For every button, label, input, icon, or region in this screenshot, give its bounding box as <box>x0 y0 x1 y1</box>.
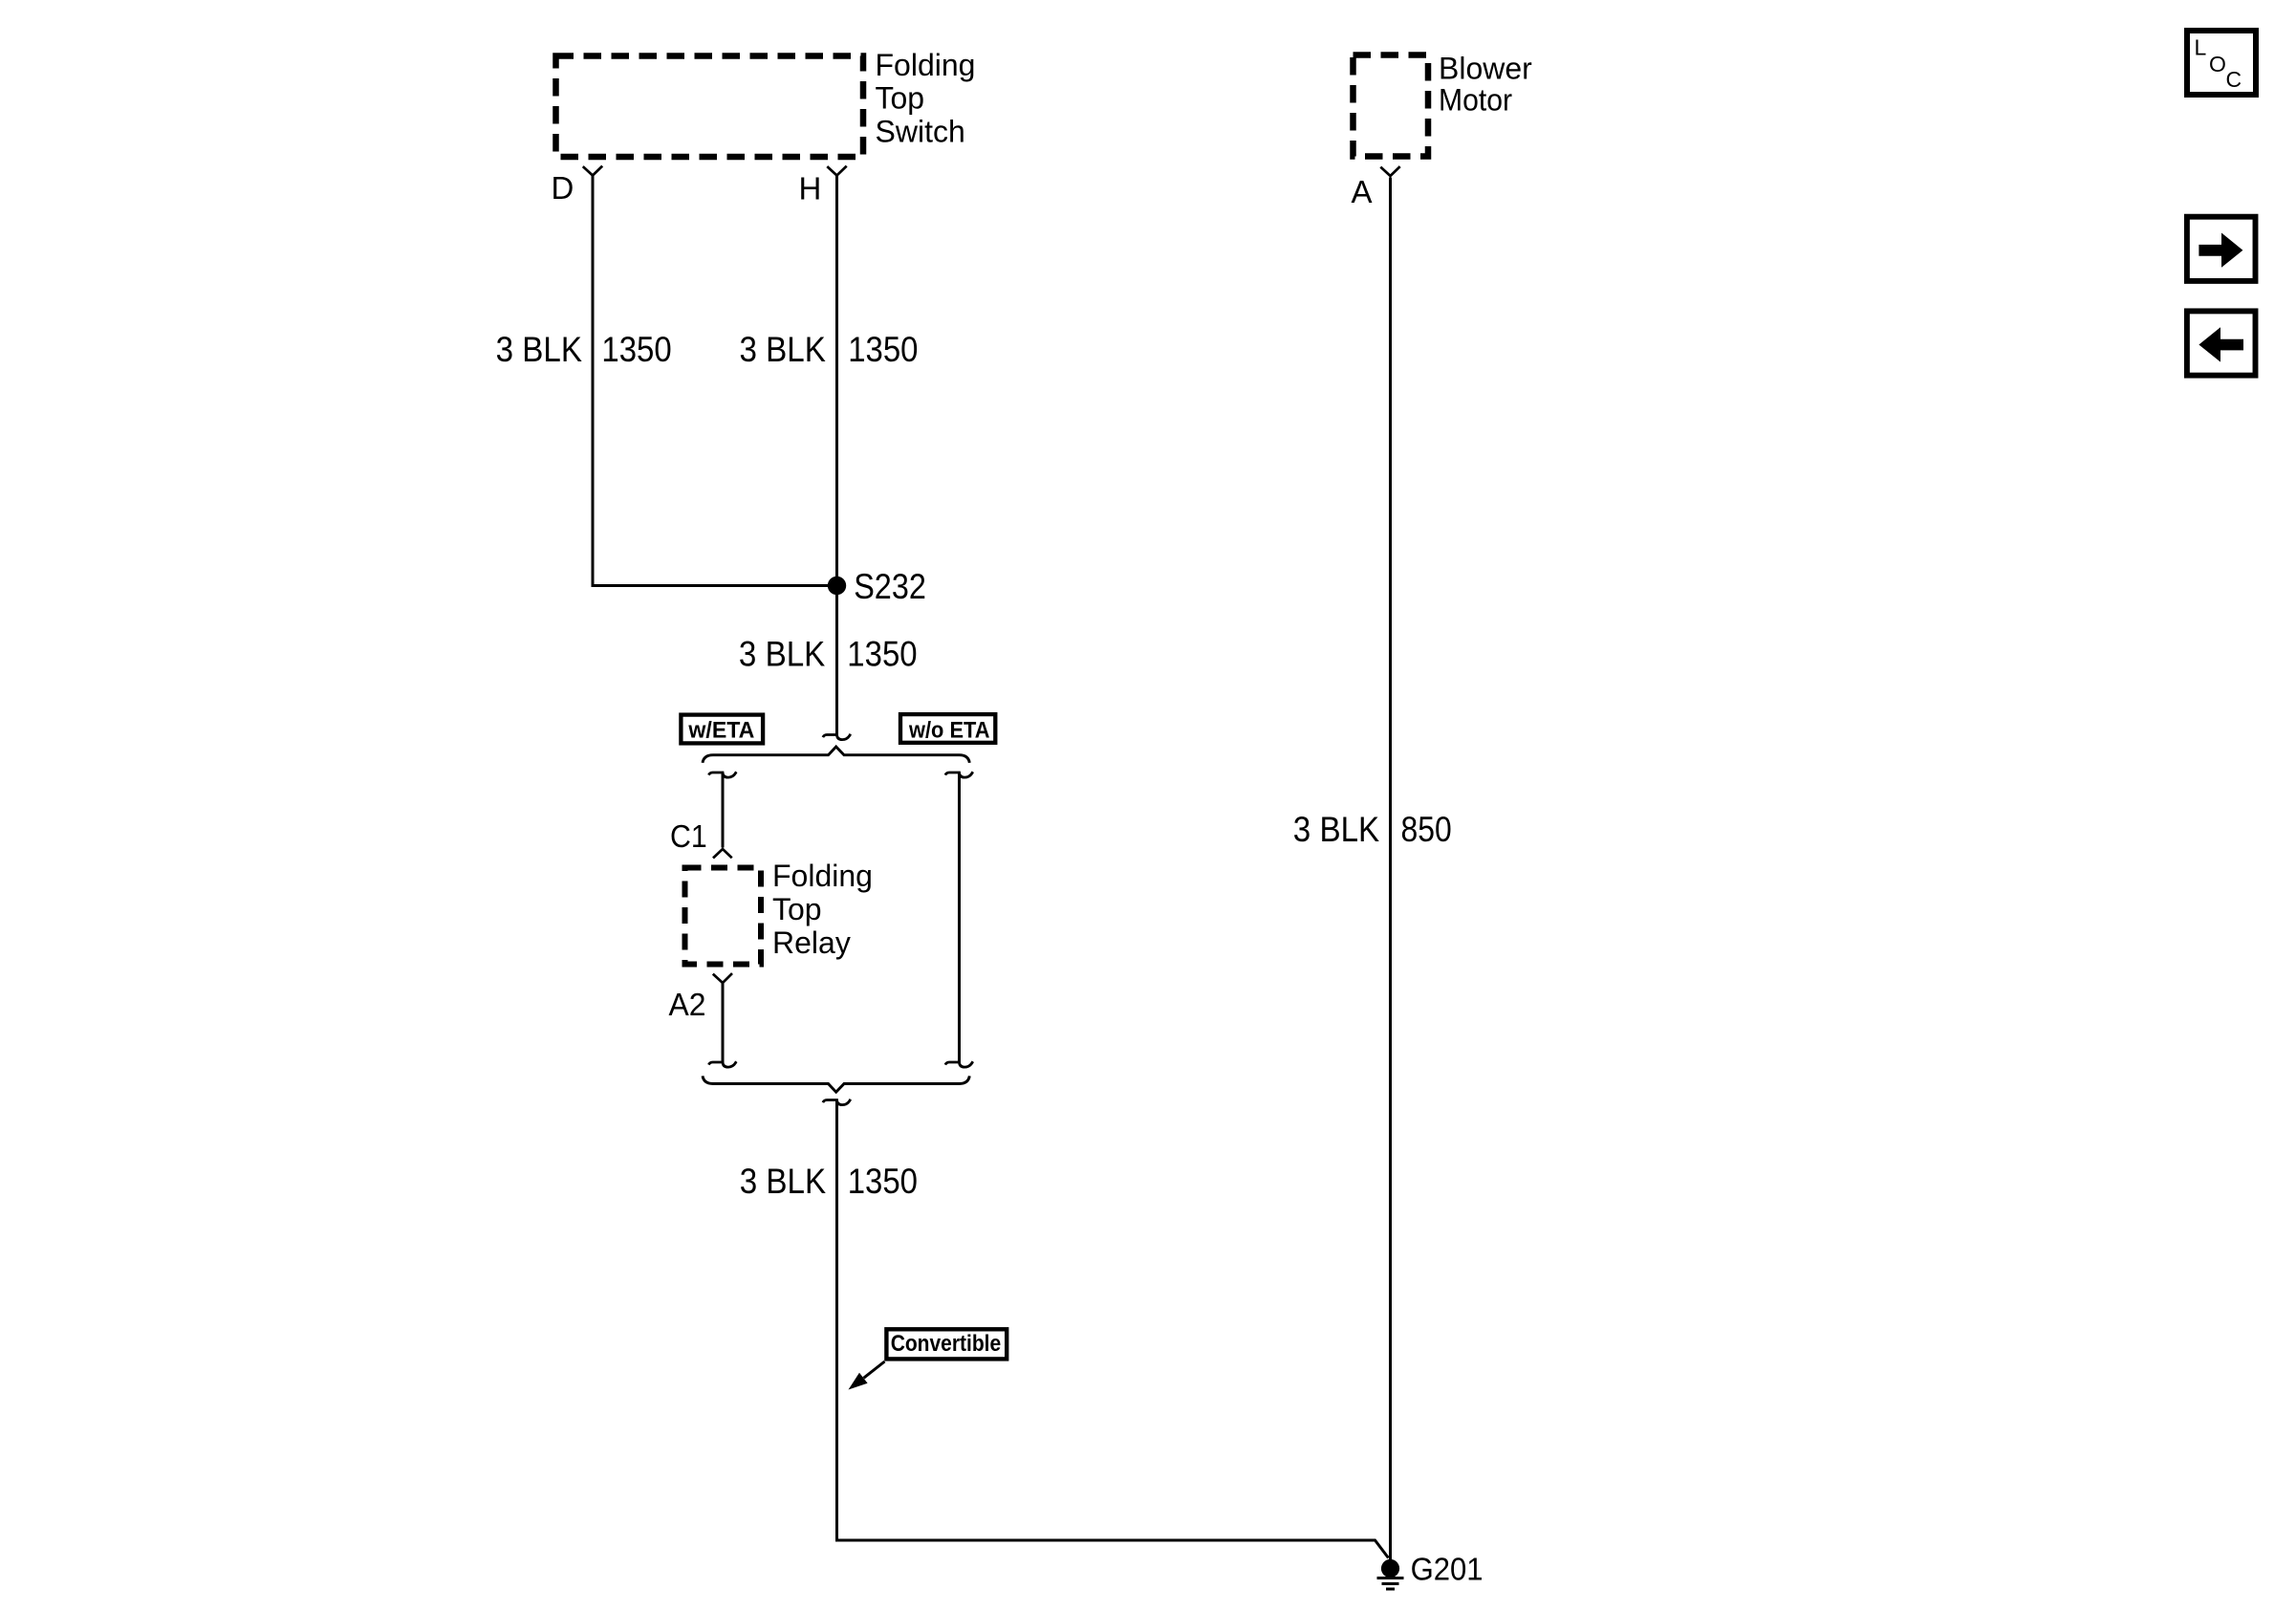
svg-text:C: C <box>2226 67 2242 92</box>
svg-text:Folding: Folding <box>772 859 873 893</box>
svg-text:1350: 1350 <box>848 1162 918 1201</box>
svg-text:Switch: Switch <box>876 115 965 149</box>
svg-text:G201: G201 <box>1411 1552 1484 1587</box>
svg-text:3 BLK: 3 BLK <box>739 635 826 674</box>
svg-text:Top: Top <box>876 81 925 116</box>
svg-text:Top: Top <box>772 892 822 926</box>
svg-text:w/o ETA: w/o ETA <box>908 718 989 744</box>
svg-text:Relay: Relay <box>772 925 851 960</box>
svg-text:H: H <box>799 171 822 207</box>
svg-text:O: O <box>2209 52 2226 76</box>
svg-text:A2: A2 <box>669 987 706 1022</box>
svg-text:L: L <box>2195 34 2207 59</box>
svg-text:A: A <box>1352 174 1373 209</box>
svg-text:1350: 1350 <box>847 635 917 674</box>
svg-text:w/ETA: w/ETA <box>687 718 754 744</box>
svg-text:1350: 1350 <box>601 330 671 369</box>
svg-text:Blower: Blower <box>1439 52 1532 86</box>
svg-text:D: D <box>552 170 574 206</box>
svg-text:Convertible: Convertible <box>891 1331 1001 1357</box>
svg-text:850: 850 <box>1401 810 1452 849</box>
svg-text:3 BLK: 3 BLK <box>740 1162 827 1201</box>
svg-text:1350: 1350 <box>848 330 918 369</box>
svg-text:3 BLK: 3 BLK <box>740 330 827 369</box>
svg-text:C1: C1 <box>670 818 707 854</box>
svg-text:3 BLK: 3 BLK <box>1293 810 1380 849</box>
svg-text:Folding: Folding <box>876 48 976 82</box>
svg-text:S232: S232 <box>854 567 926 606</box>
svg-text:Motor: Motor <box>1439 83 1512 118</box>
svg-text:3 BLK: 3 BLK <box>496 330 583 369</box>
